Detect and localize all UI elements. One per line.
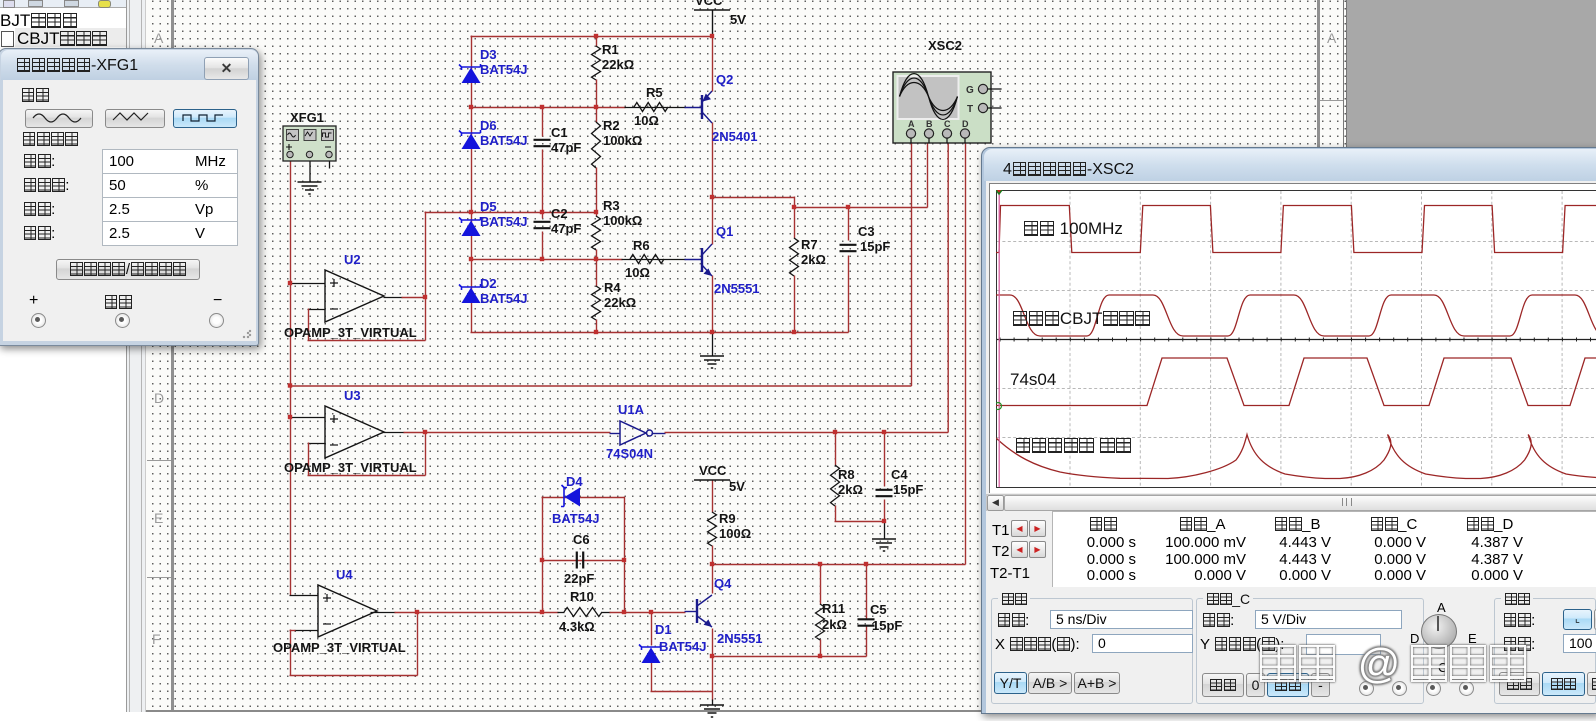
svg-text:22pF: 22pF [564, 571, 594, 586]
svg-text:D2: D2 [480, 276, 497, 291]
svg-text:47pF: 47pF [551, 221, 581, 236]
svg-text:15pF: 15pF [872, 618, 902, 633]
svg-text:D: D [962, 119, 969, 129]
svg-text:D1: D1 [655, 622, 672, 637]
svg-text:U2: U2 [344, 252, 361, 267]
svg-text:BAT54J: BAT54J [552, 511, 599, 526]
svg-text:C6: C6 [573, 532, 590, 547]
svg-text:U3: U3 [344, 388, 361, 403]
svg-text:R2: R2 [603, 118, 620, 133]
svg-text:2N5551: 2N5551 [717, 631, 763, 646]
svg-text:R6: R6 [633, 238, 650, 253]
svg-text:OPAMP_3T_VIRTUAL: OPAMP_3T_VIRTUAL [284, 460, 417, 475]
svg-text:2N5401: 2N5401 [712, 129, 758, 144]
svg-text:G: G [966, 85, 974, 96]
svg-text:4.3kΩ: 4.3kΩ [559, 619, 595, 634]
svg-text:D6: D6 [480, 118, 497, 133]
svg-text:C1: C1 [551, 125, 568, 140]
svg-text:C5: C5 [870, 602, 887, 617]
svg-text:Q1: Q1 [716, 224, 733, 239]
svg-text:R11: R11 [822, 601, 845, 616]
svg-text:OPAMP_3T_VIRTUAL: OPAMP_3T_VIRTUAL [284, 325, 417, 340]
svg-text:VCC: VCC [699, 463, 727, 478]
svg-text:C4: C4 [891, 467, 908, 482]
svg-text:2kΩ: 2kΩ [822, 617, 847, 632]
svg-text:10Ω: 10Ω [625, 265, 650, 280]
svg-text:10Ω: 10Ω [634, 113, 659, 128]
svg-text:22kΩ: 22kΩ [604, 295, 636, 310]
svg-text:R1: R1 [602, 42, 619, 57]
svg-text:5V: 5V [730, 12, 746, 27]
svg-text:XFG1: XFG1 [290, 110, 324, 125]
svg-text:B: B [926, 119, 933, 129]
svg-text:U4: U4 [336, 567, 353, 582]
svg-text:BAT54J: BAT54J [480, 214, 527, 229]
svg-text:BAT54J: BAT54J [480, 62, 527, 77]
svg-text:5V: 5V [729, 479, 745, 494]
svg-text:R4: R4 [604, 280, 621, 295]
svg-text:OPAMP_3T_VIRTUAL: OPAMP_3T_VIRTUAL [273, 640, 406, 655]
svg-text:R10: R10 [570, 589, 594, 604]
svg-text:XSC2: XSC2 [928, 38, 962, 53]
svg-text:2N5551: 2N5551 [714, 281, 760, 296]
svg-text:U1A: U1A [618, 402, 645, 417]
svg-text:R9: R9 [719, 511, 736, 526]
svg-text:2kΩ: 2kΩ [801, 252, 826, 267]
svg-text:D3: D3 [480, 47, 497, 62]
svg-text:BAT54J: BAT54J [659, 639, 706, 654]
svg-text:C: C [944, 119, 951, 129]
svg-text:R7: R7 [801, 237, 818, 252]
svg-text:Q4: Q4 [714, 576, 732, 591]
svg-text:C2: C2 [551, 206, 568, 221]
svg-text:C3: C3 [858, 224, 875, 239]
svg-text:100Ω: 100Ω [719, 526, 751, 541]
svg-text:VCC: VCC [695, 0, 723, 8]
svg-text:R5: R5 [646, 85, 663, 100]
svg-text:15pF: 15pF [893, 482, 923, 497]
svg-text:22kΩ: 22kΩ [602, 57, 634, 72]
svg-text:BAT54J: BAT54J [480, 133, 527, 148]
svg-text:BAT54J: BAT54J [480, 291, 527, 306]
svg-text:2kΩ: 2kΩ [838, 482, 863, 497]
svg-text:47pF: 47pF [551, 140, 581, 155]
svg-text:D5: D5 [480, 199, 497, 214]
svg-text:T: T [967, 104, 973, 115]
svg-text:74S04N: 74S04N [606, 446, 653, 461]
svg-text:R3: R3 [603, 198, 620, 213]
svg-text:100kΩ: 100kΩ [603, 213, 642, 228]
svg-text:Q2: Q2 [716, 72, 733, 87]
svg-text:D4: D4 [566, 474, 583, 489]
svg-text:15pF: 15pF [860, 239, 890, 254]
svg-text:100kΩ: 100kΩ [603, 133, 642, 148]
svg-text:A: A [908, 119, 915, 129]
svg-text:R8: R8 [838, 467, 855, 482]
